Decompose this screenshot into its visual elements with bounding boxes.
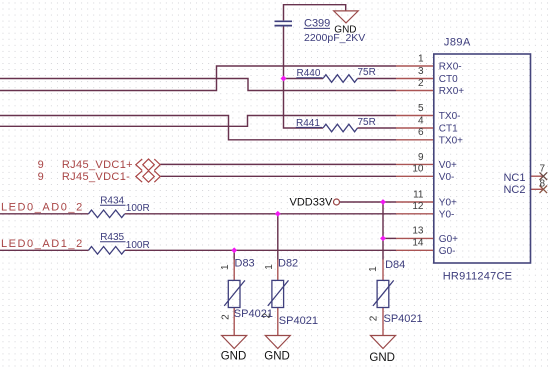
svg-text:RJ45_VDC1+: RJ45_VDC1+: [62, 159, 133, 171]
svg-text:VDD33V: VDD33V: [290, 197, 333, 209]
svg-text:J89A: J89A: [444, 37, 471, 49]
svg-text:RX0+: RX0+: [439, 86, 464, 97]
svg-text:4: 4: [418, 115, 424, 126]
wire R440 right to pin3: [358, 78, 397, 80]
R441 designator: [296, 118, 322, 129]
C399 designator: [304, 18, 330, 30]
power port VDD33V: [290, 197, 340, 209]
pin 1 stub: [396, 65, 434, 67]
svg-text:CT1: CT1: [439, 124, 458, 135]
wire drop to D83: [233, 250, 235, 259]
capacitor C399: [275, 21, 293, 25]
wire drop to D82: [277, 214, 279, 260]
pin 6 stub: [396, 139, 434, 141]
svg-text:10: 10: [412, 164, 424, 175]
resistor R441: [323, 124, 358, 132]
wire R435 right to pin14: [125, 249, 396, 251]
pin 11 stub: [396, 201, 434, 203]
varistor D82 body: [268, 280, 289, 307]
pin 3 stub: [396, 78, 434, 80]
R440 designator: [296, 68, 322, 79]
svg-text:9: 9: [38, 171, 44, 183]
wire TX pair lower (left entry y126.3 jog up to pin5 row): [0, 116, 396, 127]
pin 2 stub: [396, 90, 434, 92]
svg-text:3: 3: [418, 66, 424, 77]
svg-text:2: 2: [220, 314, 231, 320]
svg-text:6: 6: [418, 127, 424, 138]
ground symbol D84: [371, 336, 396, 349]
svg-text:NC1: NC1: [503, 172, 525, 184]
svg-text:5: 5: [418, 103, 424, 114]
svg-text:G0-: G0-: [439, 246, 456, 257]
wire V0- from port to pin10: [160, 175, 396, 177]
no-connect X pin 8: [540, 186, 548, 194]
svg-text:100R: 100R: [126, 240, 150, 251]
svg-text:SP4021: SP4021: [279, 315, 318, 327]
junction R434/D82: [275, 211, 281, 217]
wire cap C399 to GND (top): [284, 5, 346, 21]
svg-text:9: 9: [38, 159, 44, 171]
svg-text:RX0-: RX0-: [439, 62, 462, 73]
ground symbol D82: [265, 336, 290, 349]
svg-text:V0-: V0-: [439, 172, 455, 183]
svg-text:RJ45_VDC1-: RJ45_VDC1-: [62, 171, 130, 183]
net label 9 RJ45_VDC1+: [38, 159, 133, 171]
svg-text:SP4021: SP4021: [384, 313, 423, 325]
wire V0+ from port to pin9: [160, 163, 396, 165]
svg-text:HR911247CE: HR911247CE: [443, 271, 513, 283]
pin 7 stub: [531, 175, 544, 177]
pin 8 stub: [531, 188, 544, 190]
resistor R435: [89, 247, 125, 255]
svg-text:8: 8: [540, 179, 546, 190]
svg-text:GND: GND: [369, 352, 395, 364]
pin 4 stub: [396, 127, 434, 129]
svg-text:75R: 75R: [358, 67, 376, 78]
svg-text:C399: C399: [304, 18, 330, 30]
svg-text:LED0_AD1_2: LED0_AD1_2: [1, 238, 84, 250]
wire RX pair upper (left entry y78.5 jog down to pin2 row): [0, 79, 396, 91]
varistor D83 body: [224, 280, 245, 307]
wire junction to pin13: [383, 237, 396, 239]
port RJ45_VDC1- symbol: [136, 171, 160, 182]
junction at cap/R440: [281, 76, 287, 82]
svg-text:9: 9: [418, 152, 424, 163]
varistor D84 body: [373, 280, 394, 307]
svg-text:2: 2: [418, 78, 424, 89]
wire TX pair upper (left entry y115.5 jog down to pin6 row): [0, 116, 396, 140]
wire junction to R440 left: [284, 78, 324, 80]
svg-text:LED0_AD0_2: LED0_AD0_2: [1, 201, 84, 213]
svg-text:GND: GND: [334, 24, 356, 35]
svg-text:100R: 100R: [126, 203, 150, 214]
svg-text:12: 12: [412, 201, 424, 212]
pin 10 stub: [396, 175, 434, 177]
svg-text:Y0+: Y0+: [439, 198, 457, 209]
svg-text:13: 13: [412, 226, 424, 237]
wire R434 right to pin12: [125, 213, 396, 215]
svg-text:1: 1: [264, 264, 275, 270]
R434 designator: [100, 196, 126, 207]
resistor R434: [89, 210, 125, 218]
svg-text:TX0-: TX0-: [439, 111, 461, 122]
net label 9 RJ45_VDC1-: [38, 171, 131, 183]
wire RX pair lower (left entry y90.5 jog up to pin1 row): [0, 66, 396, 91]
R435 designator: [100, 232, 126, 243]
svg-text:D82: D82: [278, 257, 298, 269]
varistor D82 pins: [277, 260, 279, 336]
svg-text:TX0+: TX0+: [439, 135, 463, 146]
svg-text:7: 7: [540, 164, 546, 175]
svg-text:GND: GND: [221, 351, 247, 363]
svg-text:1: 1: [220, 264, 231, 270]
no-connect X pin 7: [540, 172, 548, 180]
pin 13 stub: [396, 237, 434, 239]
wire R441 right to pin4: [358, 127, 397, 129]
wire VDD33V to pin11: [339, 201, 396, 203]
varistor D83 pins: [233, 260, 235, 336]
svg-text:1: 1: [368, 266, 379, 272]
ground symbol top: [334, 11, 359, 23]
pin 14 stub: [396, 249, 434, 251]
svg-text:75R: 75R: [358, 117, 376, 128]
svg-text:D84: D84: [385, 259, 405, 271]
resistor R440: [323, 75, 358, 83]
svg-text:CT0: CT0: [439, 74, 458, 85]
svg-text:1: 1: [418, 53, 424, 64]
svg-text:Y0-: Y0-: [439, 209, 455, 220]
pin 12 stub: [396, 213, 434, 215]
wire LED0_AD0_2 left of R434: [0, 213, 89, 215]
svg-text:G0+: G0+: [439, 234, 458, 245]
connector J89A box: [434, 54, 531, 263]
junction at pin13 row: [380, 236, 386, 242]
wire cap C399 down to R440/R441: [284, 26, 324, 128]
svg-text:GND: GND: [264, 351, 290, 363]
wire VDD33V vertical down to D84: [382, 202, 384, 260]
pin 9 stub: [396, 163, 434, 165]
port RJ45_VDC1+ symbol: [136, 159, 160, 170]
svg-text:2: 2: [261, 313, 272, 319]
junction R435/D83: [231, 247, 237, 253]
varistor D84 pins: [382, 260, 384, 336]
wire LED0_AD1_2 left of R435: [0, 249, 89, 251]
svg-text:V0+: V0+: [439, 160, 457, 171]
junction VDD33V/pin11: [380, 199, 386, 205]
svg-text:D83: D83: [235, 257, 255, 269]
pin 5 stub: [396, 115, 434, 117]
svg-text:11: 11: [413, 189, 424, 200]
svg-text:2: 2: [369, 315, 380, 321]
svg-text:NC2: NC2: [503, 184, 525, 196]
svg-text:14: 14: [412, 238, 424, 249]
ground symbol D83: [222, 336, 247, 349]
